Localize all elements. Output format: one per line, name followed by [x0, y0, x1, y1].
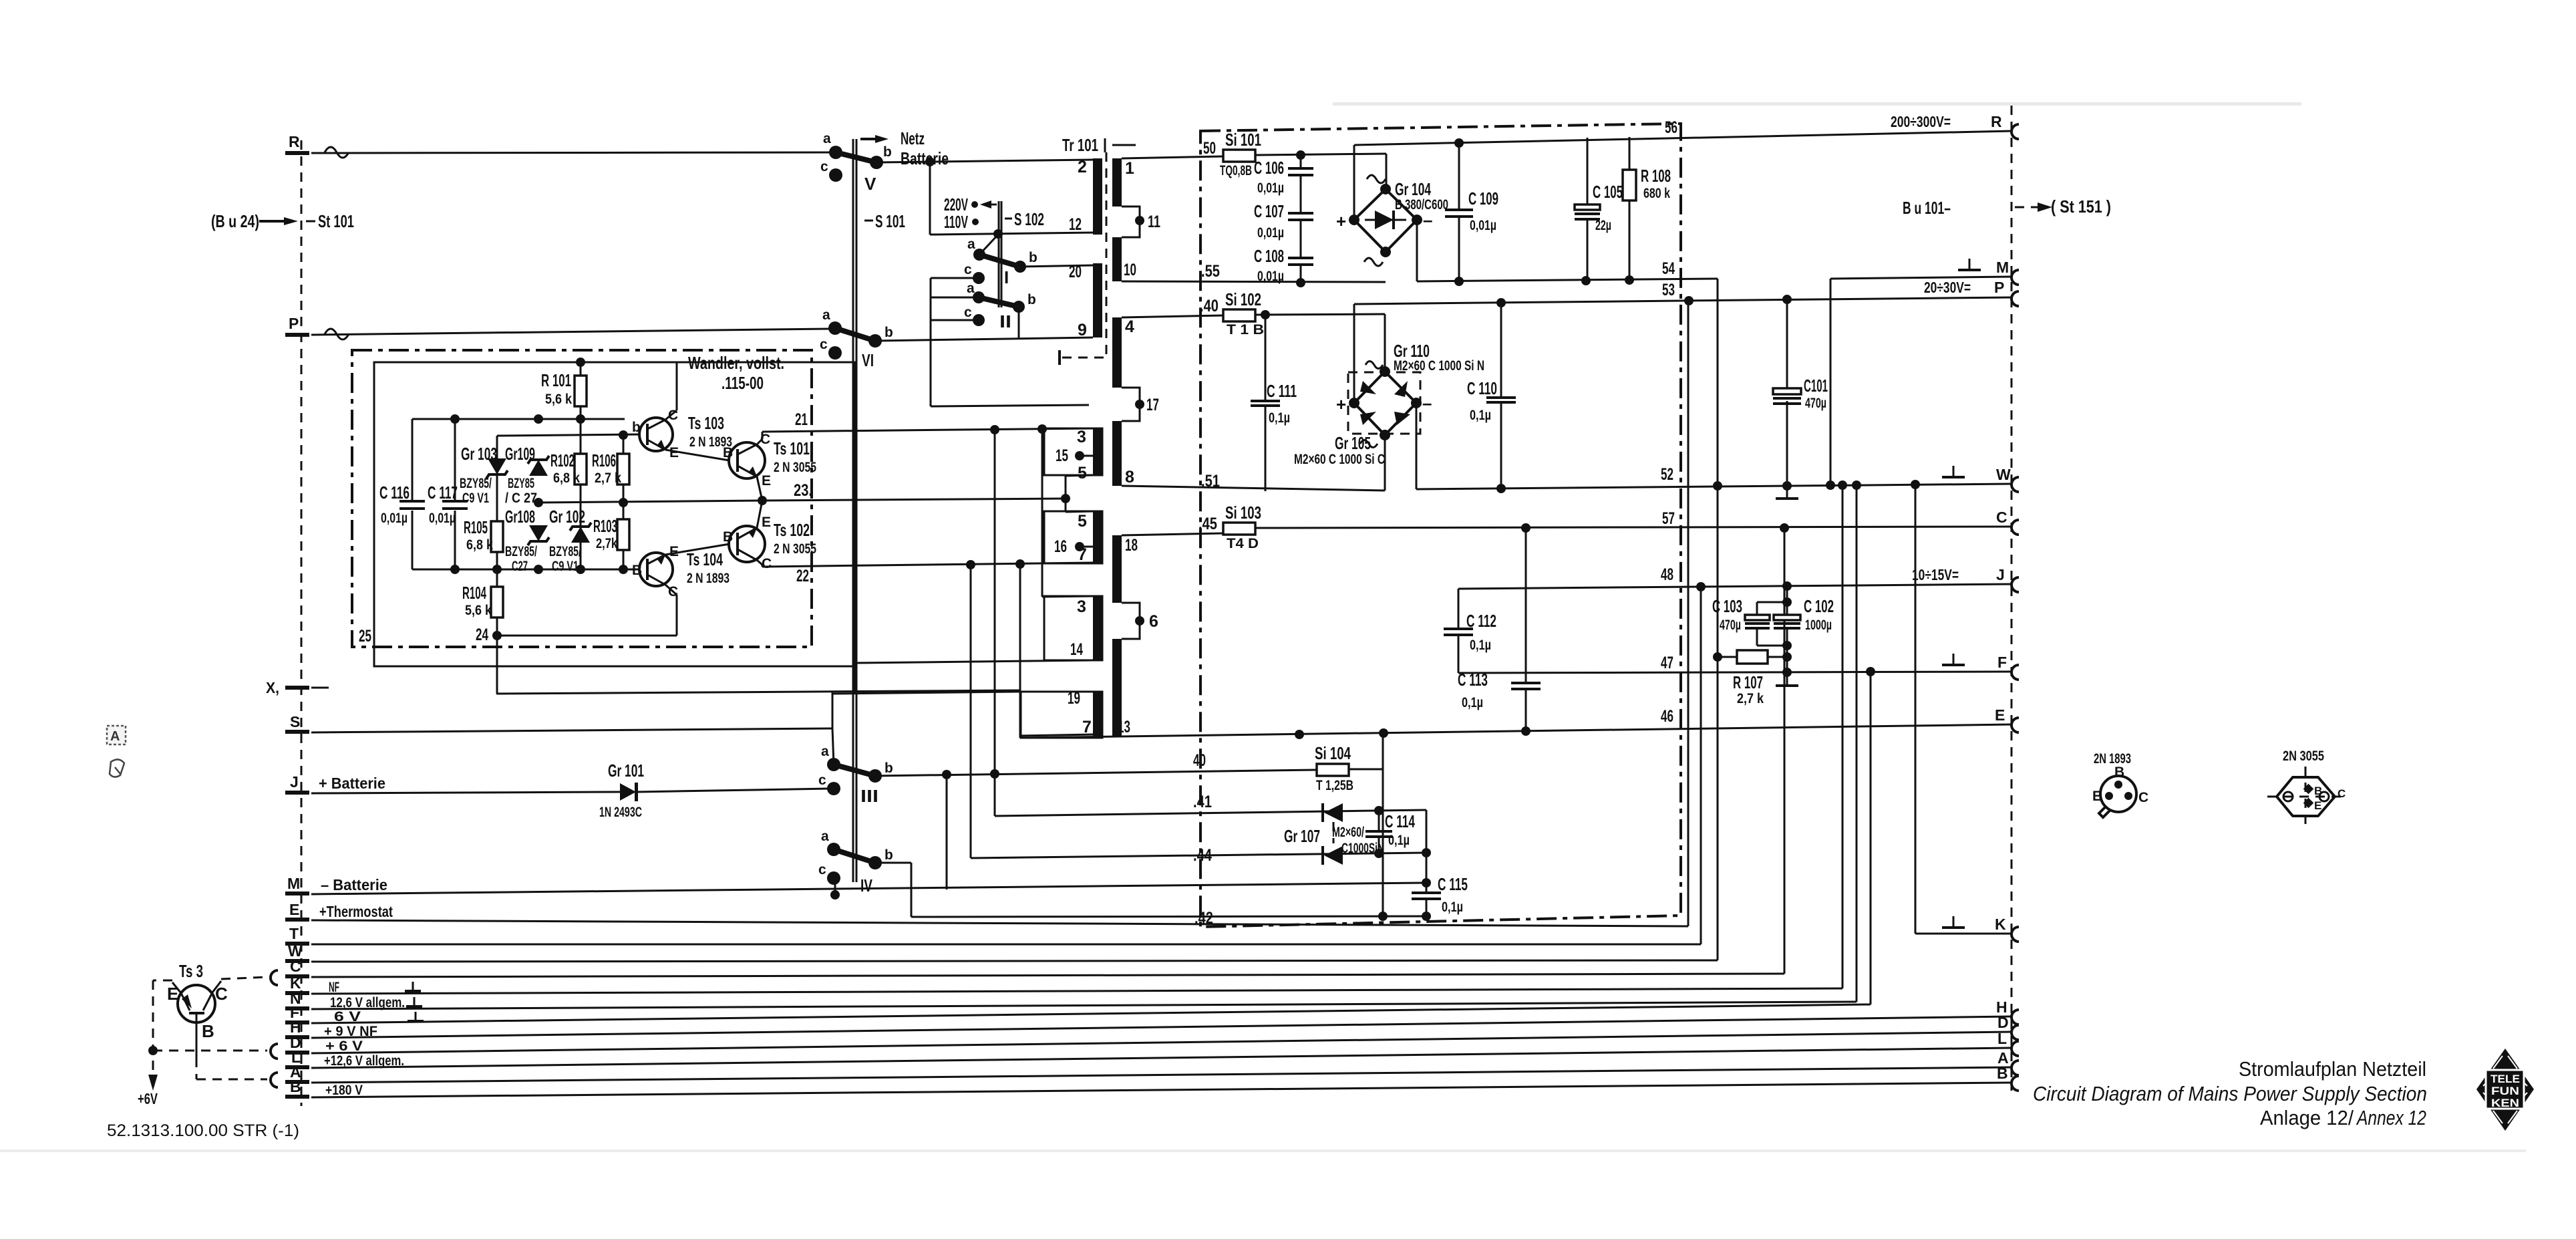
svg-text:2,7 k: 2,7 k	[595, 470, 621, 486]
svg-text:10: 10	[1124, 261, 1136, 279]
svg-text:Gr 105: Gr 105	[1335, 433, 1371, 453]
mechanical link S102 to core	[1060, 350, 1105, 365]
capacitor C107	[1254, 175, 1313, 241]
svg-text:b: b	[884, 847, 893, 863]
label Netz/Batterie with arrow	[860, 128, 949, 168]
svg-text:.41: .41	[1193, 793, 1212, 811]
resistor R101	[541, 362, 587, 419]
wire net 1 (S101-V b to Tr101 pin 2)	[876, 157, 1093, 166]
socket contact L of Bu101	[1997, 1030, 2019, 1056]
svg-text:J: J	[290, 773, 299, 791]
svg-text:c: c	[820, 159, 828, 174]
socket contact D of Bu101	[1997, 1014, 2019, 1040]
svg-text:E: E	[762, 473, 771, 489]
pin N of St101	[285, 990, 405, 1010]
svg-text:14: 14	[1070, 640, 1083, 659]
winding Tr101 feedback 5-16-7	[1044, 511, 1102, 564]
svg-text:+6V: +6V	[138, 1090, 158, 1107]
Wandler inner solid frame	[374, 362, 855, 666]
svg-text:Netz: Netz	[901, 128, 925, 148]
svg-text:C1000SiN: C1000SiN	[1341, 841, 1384, 856]
svg-text:III: III	[860, 786, 878, 806]
svg-text:+: +	[1336, 394, 1346, 414]
svg-text:BZY85: BZY85	[508, 476, 534, 491]
svg-text:S 102: S 102	[1014, 209, 1044, 229]
wire net 42 (S101-IV b down to 42 line)	[875, 863, 1431, 921]
switch S101 section IV (lever a-b)	[834, 849, 875, 863]
capacitor C102 (electrolytic)	[1774, 586, 1834, 672]
svg-text:Ts 103: Ts 103	[688, 413, 724, 433]
wire net 21 (Ts101/Ts103 collectors to Tr101 pin 3)	[757, 410, 1093, 444]
svg-text:TELE: TELE	[2490, 1073, 2520, 1085]
wire net 2 (junction to S102-I a and Tr101 pin 12)	[930, 162, 1093, 239]
svg-text:+ 6 V: + 6 V	[325, 1039, 363, 1054]
socket contact J of Bu101	[2011, 577, 2019, 592]
winding Tr101 secondary 4-17-8	[1112, 317, 1159, 487]
svg-text:2,7 k: 2,7 k	[1737, 691, 1764, 706]
svg-text:b: b	[632, 420, 641, 435]
case drawing 2N1893 (TO-39 bottom view)	[2092, 751, 2148, 817]
winding Tr101 feedback 3-15-5	[1044, 428, 1102, 483]
wire net A (to Bu101-A)	[311, 1067, 2012, 1083]
wire net 23 (emitter midline inside converter)	[534, 496, 767, 507]
pin M of St101	[285, 875, 387, 896]
switch S101 section V (lever a-b)	[836, 152, 876, 162]
switch S101 section V (contact a)	[823, 131, 842, 159]
svg-text:18: 18	[1125, 536, 1138, 555]
svg-text:–: –	[1422, 393, 1432, 413]
svg-text:–: –	[1423, 210, 1432, 230]
svg-text:R105: R105	[464, 517, 488, 537]
svg-text:M: M	[287, 875, 300, 892]
capacitor C109	[1445, 143, 1498, 281]
pin F of St101	[285, 1004, 361, 1024]
svg-text:.55: .55	[1201, 262, 1220, 281]
svg-text:R103: R103	[593, 516, 617, 536]
socket contact W of Bu101	[2011, 477, 2019, 492]
svg-text:c: c	[964, 262, 972, 277]
scan artifact icons left margin	[107, 726, 126, 777]
svg-text:P: P	[289, 315, 299, 332]
svg-text:0,01µ: 0,01µ	[1257, 225, 1284, 241]
svg-text:b: b	[884, 761, 893, 776]
svg-text:KEN: KEN	[2491, 1097, 2519, 1109]
svg-text:E: E	[1995, 706, 2005, 724]
svg-text:13: 13	[1118, 718, 1130, 736]
svg-text:E: E	[2092, 789, 2102, 804]
svg-text:Annex 12: Annex 12	[2356, 1106, 2426, 1129]
resistor R102	[550, 450, 587, 486]
svg-text:B 380/C600: B 380/C600	[1395, 197, 1448, 213]
fuse Si103	[1223, 503, 1261, 551]
svg-text:C 107: C 107	[1254, 201, 1284, 221]
svg-text:X,: X,	[266, 679, 279, 696]
svg-text:R 101: R 101	[541, 370, 571, 390]
zener diode Gr102	[549, 419, 591, 574]
wire net 56 / R rail (Gr104 + up to 200-300V output)	[1354, 113, 2012, 220]
svg-text:c: c	[820, 337, 828, 352]
capacitor C105 (electrolytic)	[1575, 138, 1623, 281]
switch S102 section II (contact a)	[931, 281, 985, 303]
svg-text:B: B	[2114, 765, 2124, 780]
svg-text:C 106: C 106	[1254, 158, 1284, 178]
svg-text:BZY85/: BZY85/	[505, 544, 537, 559]
zener diode Gr108	[505, 507, 549, 574]
Wandler module dash-dot border	[352, 350, 812, 647]
pin X of St101 (unconnected)	[266, 679, 329, 696]
wire net 48 (J output line)	[1458, 565, 2012, 591]
resistor R106	[592, 436, 629, 503]
svg-text:5,6 k: 5,6 k	[545, 392, 572, 407]
ground symbol on net K	[405, 982, 421, 991]
svg-text:4: 4	[1125, 317, 1134, 336]
svg-text:110V: 110V	[944, 212, 968, 232]
svg-text:E: E	[2314, 799, 2321, 812]
switch S101 section IV (contact c)	[818, 862, 872, 896]
svg-text:12: 12	[1069, 215, 1082, 234]
svg-text:1N 2493C: 1N 2493C	[599, 805, 642, 820]
svg-text:C 116: C 116	[379, 483, 410, 503]
svg-text:D: D	[1997, 1014, 2009, 1031]
rectifier module dash-dot border	[1200, 124, 1681, 927]
svg-text:0,1µ: 0,1µ	[1462, 695, 1483, 710]
wire net 49 (Tr101 pin 4 to fuse Si102)	[1122, 297, 1223, 317]
svg-text:T 1,25B: T 1,25B	[1316, 778, 1353, 793]
switch S101 section V (contact c, open)	[820, 159, 876, 194]
svg-text:Ts 3: Ts 3	[179, 961, 203, 981]
label 220V / 110V selector	[944, 194, 997, 232]
pin L of St101	[285, 1049, 404, 1069]
svg-text:C27: C27	[512, 559, 528, 574]
svg-text:a: a	[823, 131, 831, 146]
pin R of St101	[285, 133, 349, 158]
svg-text:2,7k: 2,7k	[596, 536, 617, 551]
svg-text:0,01µ: 0,01µ	[381, 511, 408, 526]
wire net 47 (F output line)	[1458, 654, 2012, 677]
zener diode Gr103	[460, 436, 508, 569]
socket contact E of Bu101	[2011, 718, 2019, 732]
capacitor C103 (electrolytic)	[1712, 596, 1787, 646]
svg-text:E: E	[289, 901, 299, 918]
wire net 57 (fuse Si103 to C output)	[1255, 509, 2012, 533]
svg-text:15: 15	[1056, 446, 1068, 465]
wire net K output (52 rail down to K ground output)	[1915, 485, 2012, 934]
svg-text:F: F	[1997, 654, 2007, 671]
svg-text:T 1 B: T 1 B	[1227, 322, 1264, 337]
ground symbol at K output	[1942, 916, 1965, 928]
transistor Ts103	[632, 408, 732, 460]
svg-text:C: C	[2338, 787, 2346, 800]
socket contact B of Bu101	[1997, 1065, 2019, 1091]
svg-text:B: B	[290, 1078, 301, 1095]
pin J of St101	[285, 773, 385, 795]
svg-text:6,8 k: 6,8 k	[553, 470, 580, 486]
svg-text:BZY85/: BZY85/	[460, 476, 492, 491]
socket contact K of Bu101	[2011, 927, 2019, 942]
svg-text:Si 101: Si 101	[1225, 130, 1261, 150]
switch S102 section II (contact c)	[964, 305, 1011, 331]
capacitor C115	[1412, 874, 1468, 916]
wire net T (rises to 48 rail)	[311, 587, 1701, 944]
svg-text:20: 20	[1069, 263, 1082, 281]
svg-text:I: I	[1004, 267, 1009, 287]
wire top rail of converter (B+ rail)	[576, 358, 585, 367]
ground stub below C102 on 47 line	[1776, 672, 1798, 686]
svg-text:FUN: FUN	[2491, 1085, 2519, 1097]
svg-text:Ts 104: Ts 104	[687, 549, 723, 569]
svg-text:+: +	[1336, 211, 1346, 231]
connector Bu 101 (dashed socket line)	[1903, 106, 2111, 1091]
wire net 46 (pin 7/13 line to E output)	[1020, 706, 2012, 739]
fuse Si101	[1220, 130, 1261, 178]
socket contact A of Bu101	[1997, 1049, 2019, 1075]
svg-text:R102: R102	[550, 450, 575, 470]
wire net 40a (fuse Si104 up to 46 line and down to 42 line)	[1349, 733, 1383, 916]
svg-text:2N 1893: 2N 1893	[2094, 751, 2131, 767]
svg-text:c: c	[964, 305, 972, 320]
svg-text:Si 102: Si 102	[1225, 289, 1261, 309]
wire net R (mains phase R to switch S101-V)	[311, 152, 830, 153]
wire net 19 (pin 19 to S net)	[832, 692, 1021, 694]
wire net 44 (22 net line to Gr107 bottom diode)	[971, 846, 1431, 865]
wire net M output (ground to Bu101-M)	[1830, 259, 2012, 485]
svg-text:+180 V: +180 V	[325, 1083, 363, 1098]
svg-text:54: 54	[1662, 259, 1675, 278]
socket contact R of Bu101	[2011, 124, 2019, 139]
wire net P (mains phase P to switch S101-VI)	[311, 329, 830, 335]
svg-text:2 N 3055: 2 N 3055	[774, 541, 816, 557]
wire Ts103 collector to top rail	[665, 362, 677, 420]
switch S101 section III (contact a)	[821, 728, 840, 771]
svg-text:V: V	[864, 174, 876, 194]
svg-text:b: b	[1027, 292, 1036, 307]
svg-text:23.: 23.	[794, 481, 812, 500]
wire net 5 (S102-II b down to pin 9 wire)	[1018, 307, 1020, 339]
svg-text:19: 19	[1068, 689, 1080, 708]
wire net 54/52 vertical (to W line, taps R107)	[1713, 279, 1722, 960]
case drawing 2N3055 (TO-3 bottom view)	[2267, 748, 2346, 825]
socket contact F of Bu101	[2011, 665, 2019, 680]
switch S101 section VI (lever a-b)	[835, 328, 875, 341]
svg-text:C 117: C 117	[428, 483, 458, 503]
pin E of St101	[285, 901, 393, 922]
svg-text:2N 3055: 2N 3055	[2283, 748, 2324, 764]
svg-text:.44: .44	[1193, 846, 1212, 865]
wire net 14 (pin 14 to converter frame)	[857, 660, 1093, 663]
socket contact P of Bu101	[2011, 291, 2019, 306]
dashed wire Ts3 collector to C net	[221, 970, 278, 985]
svg-text:.40: .40	[1200, 297, 1219, 315]
switch S101 section VI (contact c, open)	[820, 337, 874, 370]
ground symbol on net F	[408, 1012, 424, 1021]
svg-text:1000µ: 1000µ	[1805, 617, 1832, 633]
svg-text:B: B	[723, 445, 733, 460]
wire net J (+Batterie to diode Gr101)	[311, 792, 620, 793]
diode Gr107 lower	[1284, 822, 1384, 865]
svg-text:Si 104: Si 104	[1315, 743, 1351, 763]
svg-text:0,1µ: 0,1µ	[1388, 833, 1410, 848]
wire net 24a (box lower rail to S net)	[497, 636, 855, 694]
svg-text:6: 6	[1149, 612, 1158, 631]
svg-text:0,1µ: 0,1µ	[1470, 408, 1491, 423]
svg-text:Batterie: Batterie	[901, 148, 949, 168]
resistor R103	[593, 503, 629, 569]
switch S101 section IV (contact b)	[868, 847, 893, 869]
pin B of St101	[285, 1078, 363, 1099]
svg-text:c: c	[818, 862, 826, 877]
wire net 52 (Gr110 - ground rail to W output)	[1416, 403, 2012, 493]
svg-text:24: 24	[476, 626, 488, 644]
switch S102 section I (contact a)	[967, 235, 998, 261]
svg-text:7: 7	[1078, 545, 1087, 564]
svg-text:M: M	[1996, 259, 2009, 276]
wire net E (+Thermostat, rises to 53 rail)	[311, 299, 1688, 926]
svg-text:.51: .51	[1201, 472, 1220, 491]
wire (21 net drop to Tr101 pin 3 lower)	[1042, 429, 1093, 597]
capacitor C114	[1365, 811, 1415, 853]
wire net 55 (Tr101 pin 10 line)	[1122, 262, 1386, 287]
svg-text:E: E	[762, 515, 771, 530]
svg-text:5,6 k: 5,6 k	[465, 603, 492, 618]
svg-text:6,8 k: 6,8 k	[466, 537, 493, 553]
svg-text:L: L	[1997, 1030, 2007, 1047]
wire net 23a (midline jog to Tr101 pins 5/5)	[762, 475, 1093, 512]
ground symbol at F output	[1942, 654, 1965, 665]
capacitor C116	[379, 419, 425, 569]
svg-text:5: 5	[1078, 512, 1087, 531]
switch S101 section V (contact b)	[870, 144, 892, 169]
switch S101 section VI (contact b)	[868, 325, 893, 348]
svg-text:0,1µ: 0,1µ	[1442, 900, 1463, 915]
svg-text:.45: .45	[1198, 515, 1217, 533]
svg-text:16: 16	[1054, 537, 1067, 556]
svg-text:53: 53	[1662, 281, 1675, 299]
svg-text:56: 56	[1665, 118, 1677, 137]
resistor R108	[1623, 137, 1671, 280]
svg-text:R: R	[289, 133, 300, 150]
pin P of St101	[285, 315, 349, 339]
svg-text:22µ: 22µ	[1595, 218, 1611, 233]
svg-text:C 109: C 109	[1468, 188, 1498, 209]
svg-text:Tr 101: Tr 101	[1062, 135, 1098, 155]
wire net M / 43 (-Batterie line to C115)	[311, 883, 1426, 900]
svg-text:M2×60 C 1000 Si N: M2×60 C 1000 Si N	[1394, 358, 1484, 374]
wire Ts102 emitter to net 23	[757, 501, 762, 528]
wire net D (+6V to Bu101-D)	[311, 1032, 2012, 1053]
svg-text:11: 11	[1148, 213, 1160, 231]
svg-text:W: W	[1996, 466, 2011, 483]
svg-text:C: C	[2138, 790, 2148, 805]
svg-text:2 N 3055: 2 N 3055	[774, 460, 816, 475]
svg-text:St 101: St 101	[318, 211, 354, 231]
wire Ts104 emitter to Ts102 base	[665, 544, 730, 555]
svg-text:3: 3	[1077, 428, 1086, 446]
bridge rectifier Gr104	[1336, 175, 1448, 266]
page shadow line bottom	[0, 1149, 2526, 1152]
fuse Si102	[1223, 289, 1264, 337]
svg-text:7: 7	[1082, 718, 1092, 736]
wire net S (battery switch line to converter pin 24)	[311, 692, 832, 732]
svg-text:Gr 102: Gr 102	[549, 507, 585, 527]
winding Tr101 base drive 3-14	[1044, 596, 1102, 660]
svg-text:B: B	[2314, 785, 2322, 797]
svg-text:+Thermostat: +Thermostat	[319, 903, 393, 920]
transformer Tr101 core	[1062, 135, 1136, 361]
svg-text:0,01µ: 0,01µ	[429, 511, 456, 526]
winding Tr101 base drive 19-7	[1021, 689, 1102, 738]
wire net 3 (S102-I b to Tr101 pin 20)	[1020, 265, 1093, 267]
svg-text:IV: IV	[860, 875, 872, 896]
switch S102 mechanical linkage	[999, 201, 1044, 307]
wire net C (rises to 57 rail)	[311, 529, 1784, 977]
diode Gr101	[599, 761, 644, 820]
wire 41/44 junction vertical to 43 and C115	[1422, 810, 1431, 891]
wire bottom rail of converter	[412, 565, 628, 574]
pin H of St101	[285, 1018, 377, 1039]
switch S102 section I (contact b)	[1014, 250, 1037, 273]
svg-text:C101: C101	[1804, 376, 1828, 396]
svg-text:a: a	[821, 829, 829, 844]
winding Tr101 secondary 1-11-10	[1112, 158, 1160, 281]
bridge rectifier Gr110 / Gr105	[1294, 341, 1484, 467]
svg-text:VI: VI	[862, 350, 874, 370]
capacitor C111	[1251, 315, 1297, 491]
diode Gr107 upper	[1323, 803, 1343, 822]
wire net 24/S (converter supply line)	[496, 690, 1021, 694]
svg-text:TQ0,8B: TQ0,8B	[1220, 163, 1252, 178]
svg-text:.42: .42	[1194, 909, 1213, 928]
zener diode Gr109	[505, 444, 549, 506]
wire net H (+9V NF to Bu101-H)	[311, 1016, 2012, 1038]
wire (21 net drop to 41 line)	[994, 430, 996, 816]
switch S101 section IV (contact a)	[821, 829, 840, 856]
svg-text:a: a	[822, 307, 830, 323]
transistor Ts102	[723, 515, 816, 571]
wire net 54 (Gr104 - rail)	[1417, 220, 1718, 286]
capacitor C112	[1444, 589, 1496, 673]
svg-text:5: 5	[1078, 464, 1087, 483]
wire net L (+12,6V to Bu101-L)	[311, 1048, 2012, 1068]
svg-text:R104: R104	[462, 583, 486, 603]
capacitor C113	[1458, 528, 1541, 731]
svg-text:0,01µ: 0,01µ	[1470, 218, 1496, 233]
wire Ts104 base from bottom rail	[625, 569, 639, 571]
title block text	[2033, 1057, 2427, 1129]
transistor Ts104	[632, 544, 730, 599]
winding Tr101 secondary 18-6-13	[1112, 535, 1158, 736]
svg-text:C 108: C 108	[1254, 246, 1284, 266]
svg-text:b: b	[884, 325, 893, 340]
transistor Ts101	[723, 432, 816, 489]
svg-text:B: B	[723, 529, 733, 545]
capacitor C117	[428, 419, 468, 569]
svg-text:10÷15V=: 10÷15V=	[1912, 566, 1959, 583]
svg-text:c: c	[818, 773, 826, 788]
svg-text:C 105: C 105	[1593, 182, 1623, 202]
pin S of St101	[285, 713, 309, 734]
pin A of St101	[285, 1063, 309, 1084]
svg-text:Gr 107: Gr 107	[1284, 826, 1320, 846]
wire net N (rises to 52 ground rail)	[311, 485, 1857, 1009]
dashed wire Ts3 base to A net	[196, 1058, 278, 1087]
wire net 7 (S101-VI b to Tr101 pin 9)	[875, 337, 1093, 341]
svg-text:C 102: C 102	[1804, 596, 1834, 616]
svg-text:a: a	[821, 744, 829, 759]
svg-text:9: 9	[1078, 321, 1087, 339]
wire Ts104 collector to 24 node	[492, 585, 677, 640]
pin C of St101	[285, 958, 309, 978]
wire (vertical from 40 line to M line)	[946, 775, 948, 889]
